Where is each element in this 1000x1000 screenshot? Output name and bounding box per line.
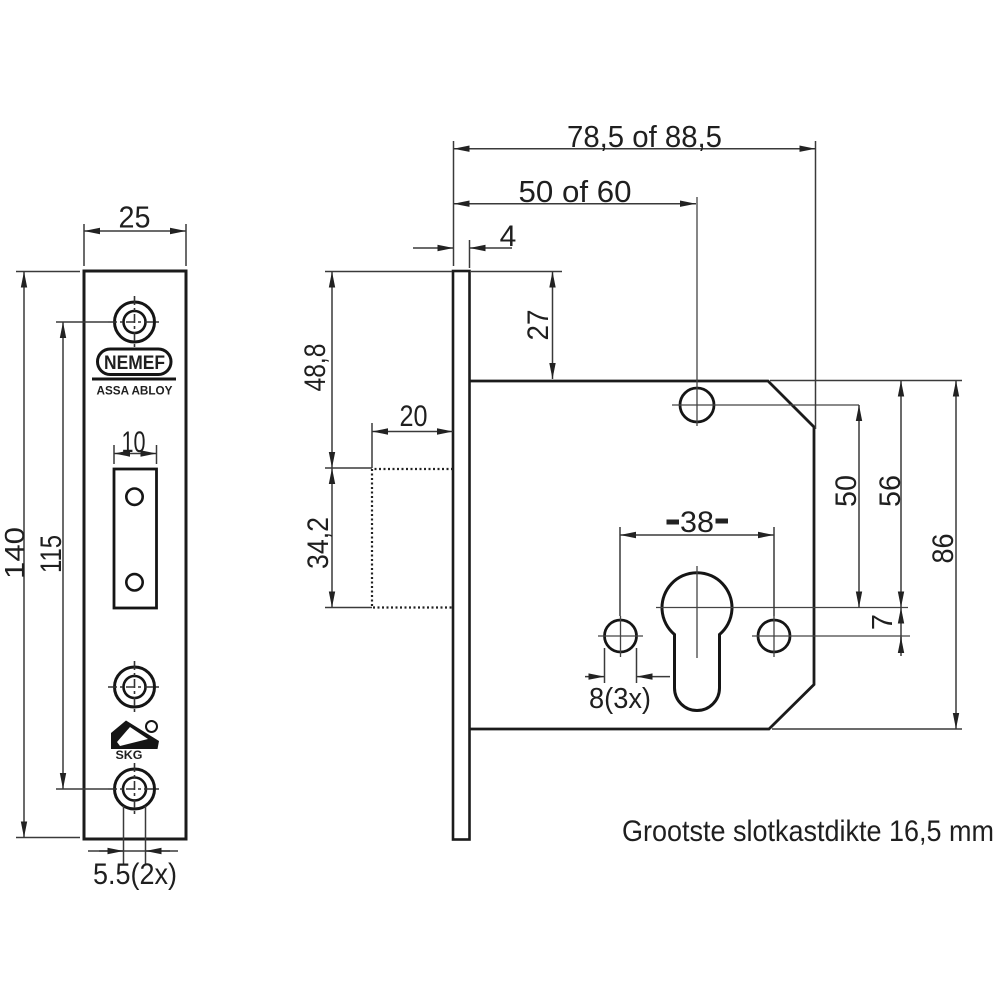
bolt bottom ext line <box>325 607 372 609</box>
cylinder horizontal centerline / ext to 50-56 dims <box>656 607 908 609</box>
svg-text:10: 10 <box>122 426 146 459</box>
dim 5.5 line <box>88 850 178 852</box>
euro profile cylinder hole <box>662 573 732 711</box>
dim 38 ext lines <box>620 527 774 616</box>
SKG registered circle <box>146 721 157 732</box>
svg-text:7: 7 <box>867 614 899 630</box>
faceplate top ext line to right (for dim 27) <box>471 271 562 273</box>
SKG logo mark <box>111 721 159 750</box>
top fixing hole centerlines <box>672 197 859 426</box>
middle screw hole inner <box>124 676 146 698</box>
right M5 hole <box>758 620 790 652</box>
svg-text:78,5 of 88,5: 78,5 of 88,5 <box>567 119 722 154</box>
svg-text:34,2: 34,2 <box>302 517 335 569</box>
svg-text:25: 25 <box>119 200 151 235</box>
svg-text:50 of 60: 50 of 60 <box>519 174 632 209</box>
middle screw hole outer <box>115 667 155 707</box>
slot (sluitkom) rectangle <box>114 469 157 608</box>
dim 56 line <box>900 381 902 608</box>
dim 78,5 of 88,5 line <box>454 148 816 150</box>
top fixing hole <box>680 388 714 422</box>
case bottom ext line to right <box>772 728 962 730</box>
svg-text:8(3x): 8(3x) <box>589 683 651 715</box>
top screw hole crosshair <box>108 296 161 348</box>
svg-text:38: 38 <box>680 506 714 539</box>
NEMEF underline <box>92 378 176 381</box>
dim 48,8 line <box>331 272 333 469</box>
dim 25 line <box>84 230 186 232</box>
dim 50 line <box>858 405 860 608</box>
dim 27 line <box>552 272 554 380</box>
faceplate top ext line to left (for dim 48,8) <box>325 271 452 273</box>
cylinder vertical centerline <box>696 566 698 658</box>
lock case outline <box>470 381 815 729</box>
dim 25 extension lines <box>84 224 186 266</box>
NEMEF logo stadium <box>98 349 172 375</box>
svg-text:20: 20 <box>400 400 428 433</box>
right M5 hole centerlines / ext to 7 dim <box>752 616 910 657</box>
dim 5.5 arrows <box>99 850 124 852</box>
dim 5.5 extension lines <box>124 806 146 864</box>
svg-text:56: 56 <box>874 475 907 507</box>
deadbolt (hidden, dotted) <box>372 469 453 608</box>
svg-text:86: 86 <box>927 534 960 564</box>
dim 4 right ext line <box>469 240 471 268</box>
dim 78,5 ext lines <box>454 141 816 429</box>
dim 10 line <box>114 453 157 455</box>
dim 115 line <box>62 322 64 789</box>
svg-text:4: 4 <box>500 220 517 253</box>
faceplate side bar <box>453 271 470 840</box>
bolt top ext line <box>325 467 372 469</box>
dim 86 line <box>955 381 957 730</box>
svg-text:ASSA ABLOY: ASSA ABLOY <box>97 386 173 398</box>
svg-text:50: 50 <box>830 475 863 507</box>
dim 20 ext line <box>371 423 373 468</box>
top screw hole outer <box>115 302 155 342</box>
svg-text:5.5(2x): 5.5(2x) <box>93 858 177 891</box>
faceplate front outline <box>84 271 186 839</box>
left M5 hole <box>605 620 637 652</box>
svg-text:115: 115 <box>35 535 68 573</box>
case top ext line to right <box>770 380 962 382</box>
slot hole upper <box>126 489 142 505</box>
left M5 hole centerlines <box>598 616 643 657</box>
dim 4 arrows <box>413 247 454 249</box>
svg-text:140: 140 <box>0 527 30 579</box>
bottom screw hole inner <box>123 778 146 801</box>
dim 7 line with arrows <box>900 608 902 657</box>
left view dimension texts <box>0 200 177 892</box>
dim 8(3x) ext lines <box>605 648 637 683</box>
bottom screw hole outer <box>115 769 155 809</box>
dim 8(3x) arrows <box>585 676 605 678</box>
svg-text:48,8: 48,8 <box>299 344 332 392</box>
dim 34,2 line <box>331 468 333 608</box>
dim 50 of 60 line <box>454 203 697 205</box>
dim 20 line <box>372 431 453 433</box>
middle screw hole crosshair <box>108 661 161 713</box>
svg-text:Grootste slotkastdikte 16,5 mm: Grootste slotkastdikte 16,5 mm <box>622 815 994 848</box>
top screw hole inner <box>124 311 146 333</box>
svg-text:SKG: SKG <box>116 748 143 762</box>
svg-text:27: 27 <box>522 310 555 341</box>
right view dimension texts <box>299 119 960 715</box>
bottom screw hole crosshair <box>108 763 161 815</box>
dim 115 extension lines <box>56 322 108 789</box>
dim 10 extension lines <box>114 445 157 464</box>
svg-text:NEMEF: NEMEF <box>104 353 165 374</box>
dim 140 extension lines <box>16 272 80 838</box>
dim 140 line <box>23 272 25 838</box>
slot hole lower <box>126 574 142 590</box>
dim 38 line <box>620 534 774 536</box>
